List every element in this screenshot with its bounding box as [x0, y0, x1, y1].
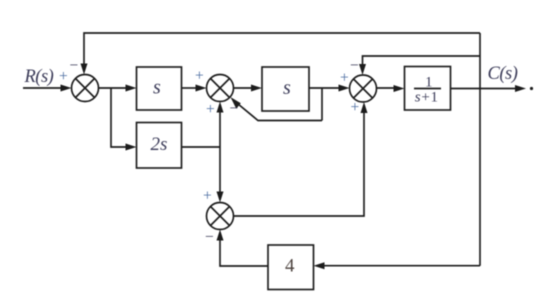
svg-text:−: −	[205, 229, 214, 246]
svg-text:2s: 2s	[151, 134, 168, 155]
svg-text:+: +	[195, 68, 204, 85]
svg-text:+: +	[206, 101, 215, 118]
svg-text:s: s	[153, 77, 161, 99]
svg-text:+: +	[340, 70, 349, 87]
svg-text:4: 4	[285, 256, 295, 277]
svg-text:+: +	[351, 99, 360, 116]
svg-text:−: −	[70, 57, 79, 74]
svg-text:1: 1	[425, 75, 433, 91]
svg-text:−: −	[230, 100, 239, 117]
svg-text:C(s): C(s)	[488, 64, 518, 84]
svg-text:+: +	[59, 68, 68, 85]
svg-text:s+1: s+1	[415, 90, 439, 106]
svg-text:R(s): R(s)	[24, 67, 54, 87]
svg-text:+: +	[203, 188, 212, 205]
svg-text:−: −	[350, 57, 359, 74]
svg-text:s: s	[283, 77, 291, 99]
